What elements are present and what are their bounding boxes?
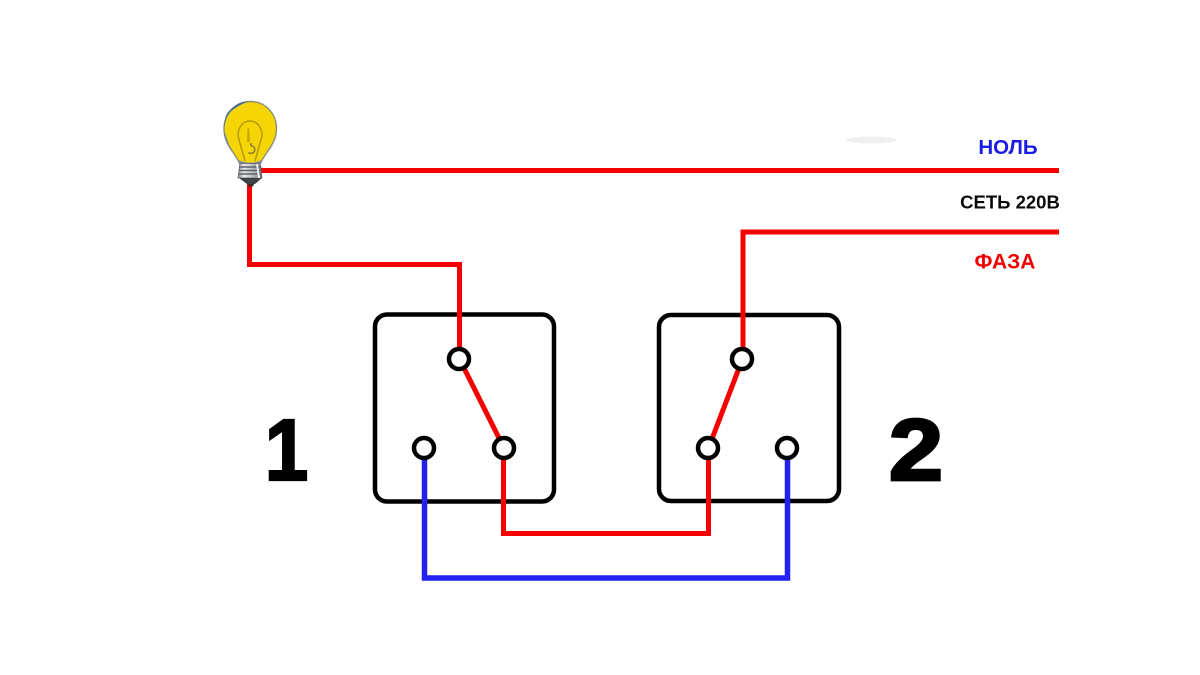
terminal: switch 1 right contact bbox=[494, 438, 514, 458]
wire: blue traveler between switch 1 left contact and switch 2 right contact bbox=[425, 448, 788, 578]
wire: switch 1 lever (common to right contact) bbox=[460, 359, 505, 448]
bulb glass shading patches bbox=[225, 102, 248, 118]
wire: lamp to switch 1 top terminal bbox=[250, 178, 460, 359]
terminal: switch 1 common (top) bbox=[449, 349, 469, 369]
svg-text:СЕТЬ 220В: СЕТЬ 220В bbox=[960, 192, 1060, 213]
svg-text:ФАЗА: ФАЗА bbox=[975, 251, 1036, 274]
bulb glass bbox=[224, 102, 277, 164]
switch box 1 (switch S1) bbox=[375, 315, 554, 502]
svg-text:1: 1 bbox=[265, 401, 309, 499]
terminal: switch 2 left contact bbox=[698, 438, 718, 458]
bulb base tip bbox=[239, 178, 262, 184]
switch box 2 (switch S2) bbox=[659, 315, 839, 501]
watermark smudge bbox=[846, 137, 896, 144]
terminal: switch 2 common (top) bbox=[732, 349, 752, 369]
wire: red traveler between switch 1 right contact and switch 2 left contact bbox=[504, 448, 709, 534]
wire: phase feed line to switch 2 (ФАЗА net) bbox=[743, 232, 1059, 359]
svg-text:НОЛЬ: НОЛЬ bbox=[978, 136, 1037, 159]
lamp EL1 (incandescent bulb) bbox=[224, 102, 277, 187]
bulb screw base bbox=[238, 164, 262, 179]
wire: switch 2 lever (common to left contact) bbox=[709, 359, 743, 448]
bulb filament sketch bbox=[238, 121, 262, 136]
wire: neutral line from lamp to right edge (НОЛЬ net) bbox=[259, 168, 1059, 173]
terminal: switch 1 left contact bbox=[414, 438, 434, 458]
svg-text:2: 2 bbox=[889, 401, 943, 499]
terminal: switch 2 right contact bbox=[777, 438, 797, 458]
